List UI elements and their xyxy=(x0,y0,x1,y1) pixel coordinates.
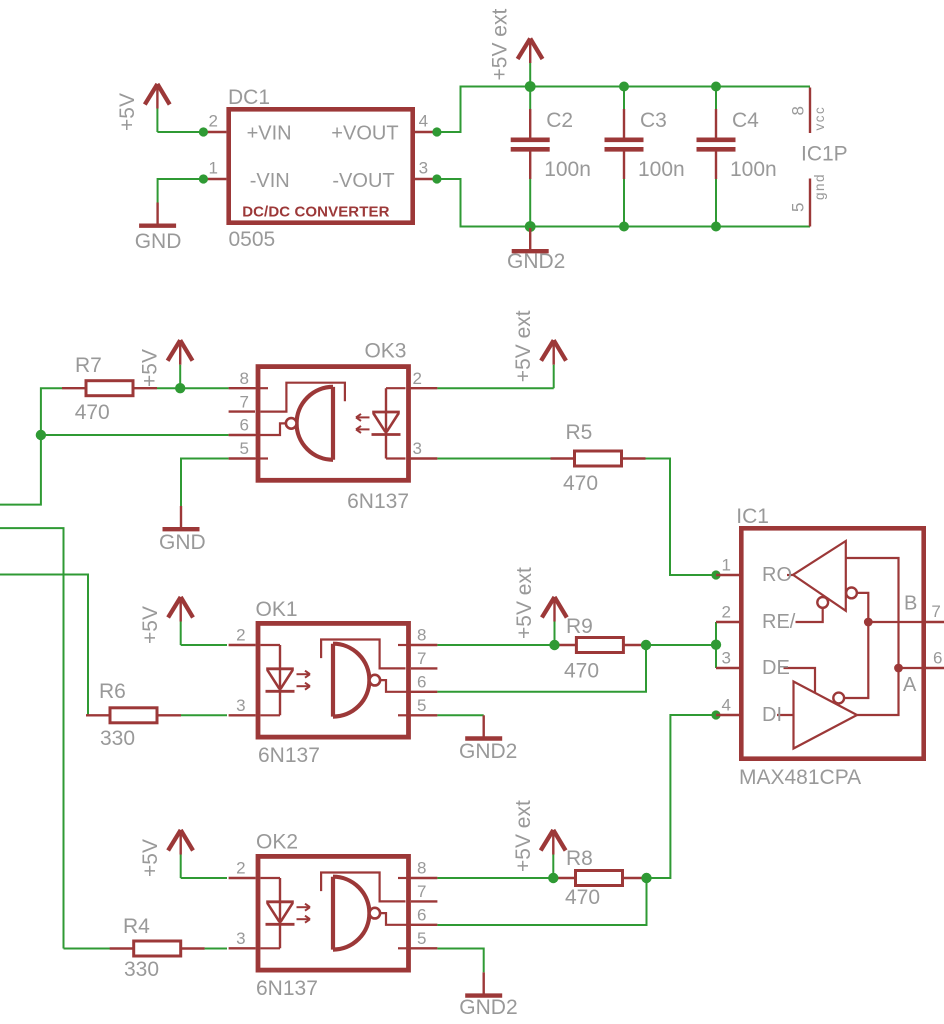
svg-text:8: 8 xyxy=(417,859,426,878)
IC1 pin stubs xyxy=(716,574,739,576)
wire R7 right to +5V and OK3 pin 8 xyxy=(157,387,229,389)
svg-text:6N137: 6N137 xyxy=(256,977,318,1000)
svg-text:470: 470 xyxy=(565,886,600,909)
ground GND xyxy=(135,203,182,254)
supply symbol +5V ext (top) xyxy=(518,39,543,87)
svg-text:R9: R9 xyxy=(566,615,593,638)
wire OK1 pin 5 to GND2 xyxy=(437,714,483,716)
wire OK3 pin 3 to R5 xyxy=(437,458,550,460)
svg-text:+5V: +5V xyxy=(139,349,162,387)
DC/DC converter DC1 xyxy=(203,86,437,251)
supply symbol +5V (OK2) xyxy=(168,830,193,878)
wire +5V to OK1 pin 2 xyxy=(181,644,227,646)
node R9 left junction xyxy=(549,640,559,650)
ground GND xyxy=(159,506,206,554)
wire OK3 pin 5 to GND xyxy=(181,459,229,507)
svg-text:-VIN: -VIN xyxy=(250,170,290,192)
OK2 LED xyxy=(261,877,281,879)
IC1P pin 8 VCC xyxy=(809,88,811,134)
node IC1 B junction xyxy=(864,618,873,627)
svg-text:5: 5 xyxy=(789,203,808,212)
svg-text:6N137: 6N137 xyxy=(258,744,320,767)
wire IC1 RE//DE junction xyxy=(715,622,717,668)
capacitor C2 100n xyxy=(511,87,591,227)
wire R4 to OK2 pin 3 xyxy=(205,948,227,950)
wire R5 to IC1 pin 1 RO xyxy=(646,459,717,576)
svg-text:+VOUT: +VOUT xyxy=(331,123,398,145)
IC1 receiver buffer xyxy=(793,541,846,611)
wire DC1 pin 1 to GND xyxy=(158,179,204,203)
svg-text:B: B xyxy=(904,593,917,615)
IC1P pin 5 GND xyxy=(809,179,811,227)
supply symbol +5V ext (OK2) xyxy=(541,830,566,878)
capacitor C4 100n xyxy=(697,87,777,227)
resistor R4 330 xyxy=(110,915,205,981)
svg-text:470: 470 xyxy=(563,472,598,495)
svg-text:DC1: DC1 xyxy=(228,86,270,109)
svg-text:vcc: vcc xyxy=(812,106,827,131)
svg-text:A: A xyxy=(903,674,917,696)
svg-text:-VOUT: -VOUT xyxy=(332,170,394,192)
supply symbol +5V ext (OK1) xyxy=(542,597,567,645)
ground GND2 xyxy=(507,228,565,273)
svg-text:2: 2 xyxy=(236,626,245,645)
supply symbol +5V ext (OK3) xyxy=(541,340,566,388)
OK1 gate xyxy=(331,644,335,717)
wire DC1 pin 3 to GND2 rail xyxy=(437,179,810,227)
svg-text:6N137: 6N137 xyxy=(347,490,409,513)
svg-text:C3: C3 xyxy=(640,109,667,132)
optocoupler OK3 6N137 xyxy=(229,367,438,481)
IC1 B net wiring xyxy=(844,593,868,698)
wire R9 right to IC1 RE//DE xyxy=(647,644,716,646)
resistor R5 470 xyxy=(551,421,646,495)
svg-text:+5V: +5V xyxy=(139,606,162,644)
svg-text:5: 5 xyxy=(417,929,426,948)
supply symbol +5V (OK3) xyxy=(168,340,193,388)
capacitor C3 100n xyxy=(605,87,685,227)
svg-text:+5V ext: +5V ext xyxy=(513,567,536,639)
wire OK2 pin 8 to +5V ext / R8 xyxy=(437,877,553,879)
svg-text:8: 8 xyxy=(789,106,808,115)
optocoupler OK1 6N137 xyxy=(229,623,438,737)
IC1 DE enable wire xyxy=(784,668,816,693)
junction dots top rail xyxy=(525,81,536,92)
svg-text:2: 2 xyxy=(413,369,422,388)
OK1 pin stubs xyxy=(411,644,437,646)
svg-text:DI: DI xyxy=(762,704,782,726)
wire R6 to OK1 pin 3 xyxy=(181,714,227,716)
svg-text:DC/DC CONVERTER: DC/DC CONVERTER xyxy=(242,204,389,221)
svg-text:470: 470 xyxy=(75,401,110,424)
svg-text:R8: R8 xyxy=(566,847,593,870)
svg-text:2: 2 xyxy=(722,603,731,622)
ground GND2 xyxy=(459,715,517,763)
OK3 LED xyxy=(386,387,406,389)
svg-text:100n: 100n xyxy=(638,158,685,181)
svg-text:GND: GND xyxy=(135,230,182,253)
svg-text:+5V: +5V xyxy=(116,93,139,131)
resistor R8 470 xyxy=(552,847,647,909)
wire to R4 xyxy=(64,948,111,950)
svg-text:RE/: RE/ xyxy=(762,611,796,633)
svg-text:C4: C4 xyxy=(732,109,759,132)
svg-text:2: 2 xyxy=(209,112,218,131)
svg-text:6: 6 xyxy=(240,416,249,435)
OK2 pin stubs xyxy=(411,877,437,879)
IC1 B-side inverting bubble (driver) xyxy=(833,693,844,704)
svg-text:+5V ext: +5V ext xyxy=(512,310,535,382)
wire R8 junction down to OK2 pin 6 xyxy=(437,878,646,925)
IC1 A net wiring xyxy=(899,667,927,669)
svg-text:RO: RO xyxy=(762,564,792,586)
svg-text:4: 4 xyxy=(419,112,428,131)
svg-text:DE: DE xyxy=(762,657,790,679)
svg-text:6: 6 xyxy=(417,906,426,925)
svg-text:1: 1 xyxy=(209,159,218,178)
IC1 receiver input wire to A net xyxy=(846,558,899,715)
svg-text:GND2: GND2 xyxy=(459,740,517,763)
svg-text:6: 6 xyxy=(417,673,426,692)
node R8 left junction xyxy=(548,873,558,883)
wire R9 junction down to OK1 pin 6 xyxy=(437,645,646,692)
node R8 right junction xyxy=(641,873,651,883)
node +5V/R7/OK3.8 xyxy=(175,383,185,393)
svg-text:5: 5 xyxy=(417,696,426,715)
supply symbol +5V (OK1) xyxy=(168,597,193,645)
IC1 B-side inverting bubble (receiver) xyxy=(846,588,857,599)
wire +5V to OK2 pin 2 xyxy=(181,877,227,879)
svg-text:100n: 100n xyxy=(730,158,777,181)
svg-text:8: 8 xyxy=(417,626,426,645)
svg-text:IC1P: IC1P xyxy=(801,143,848,166)
IC1 driver buffer xyxy=(794,682,858,749)
svg-text:3: 3 xyxy=(236,696,245,715)
IC1 RE/ enable bubble xyxy=(796,608,823,622)
svg-text:8: 8 xyxy=(240,369,249,388)
wire +5V to DC1 pin 2 xyxy=(157,131,203,133)
svg-text:R6: R6 xyxy=(99,680,126,703)
svg-text:330: 330 xyxy=(100,727,135,750)
node IC1 pin 1 xyxy=(711,570,720,579)
svg-text:7: 7 xyxy=(417,649,426,668)
node IC1 pin 4 xyxy=(711,710,720,719)
svg-text:R4: R4 xyxy=(123,915,150,938)
svg-text:OK2: OK2 xyxy=(256,831,298,854)
svg-text:MAX481CPA: MAX481CPA xyxy=(739,766,861,789)
svg-text:OK1: OK1 xyxy=(256,598,298,621)
optocoupler OK2 6N137 xyxy=(229,856,438,970)
svg-text:+5V ext: +5V ext xyxy=(489,9,512,81)
svg-text:3: 3 xyxy=(722,649,731,668)
svg-text:330: 330 xyxy=(124,958,159,981)
OK1 LED xyxy=(261,644,281,646)
ground GND2 xyxy=(459,972,517,1019)
svg-text:1: 1 xyxy=(722,556,731,575)
wire OK3 pin 2 to +5V ext xyxy=(437,387,553,389)
junction dots bottom rail xyxy=(525,221,536,232)
resistor R7 470 xyxy=(62,354,157,424)
wire OK2 pin 5 to GND2 xyxy=(437,949,483,973)
power pins symbol IC1P xyxy=(789,88,848,227)
node IC1 A junction xyxy=(894,664,903,673)
svg-text:R5: R5 xyxy=(566,421,593,444)
svg-text:GND2: GND2 xyxy=(507,250,565,273)
svg-text:3: 3 xyxy=(413,439,422,458)
junction dots at DC1 pins xyxy=(199,127,208,136)
svg-text:IC1: IC1 xyxy=(736,505,769,528)
OK2 gate xyxy=(331,877,335,950)
resistor R6 330 xyxy=(86,680,181,750)
resistor R9 470 xyxy=(552,615,647,683)
svg-text:2: 2 xyxy=(236,859,245,878)
RS-485 transceiver IC1 MAX481CPA xyxy=(716,505,944,789)
svg-text:R7: R7 xyxy=(75,354,102,377)
svg-text:3: 3 xyxy=(419,159,428,178)
svg-text:100n: 100n xyxy=(544,158,591,181)
node junction R7/OK3.6 xyxy=(36,430,46,440)
supply symbol +5V (DC1 input) xyxy=(145,84,170,132)
svg-text:7: 7 xyxy=(417,882,426,901)
svg-text:GND2: GND2 xyxy=(459,996,517,1019)
svg-text:7: 7 xyxy=(240,392,249,411)
wire OK1 pin 8 to +5V ext / R9 xyxy=(437,644,554,646)
svg-text:OK3: OK3 xyxy=(364,340,406,363)
svg-text:3: 3 xyxy=(236,929,245,948)
svg-text:5: 5 xyxy=(240,439,249,458)
svg-text:gnd: gnd xyxy=(812,173,827,200)
svg-text:470: 470 xyxy=(564,660,599,683)
wire R7 left to junction and off-sheet (RXD) xyxy=(0,388,62,504)
OK3 gate xyxy=(331,387,335,460)
svg-text:+5V ext: +5V ext xyxy=(512,800,535,872)
wire DC1 pin 4 to +5V ext rail xyxy=(437,87,810,133)
wire R8 right up to IC1 pin 4 DI xyxy=(647,715,717,878)
svg-text:GND: GND xyxy=(159,531,206,554)
svg-text:+5V: +5V xyxy=(139,839,162,877)
OK3 pin stubs xyxy=(229,387,255,389)
svg-text:+VIN: +VIN xyxy=(247,123,292,145)
svg-text:0505: 0505 xyxy=(229,228,276,251)
svg-text:7: 7 xyxy=(931,602,940,621)
off-sheet wire (to R6) xyxy=(0,575,88,716)
off-sheet wire (TXD in) xyxy=(0,528,64,948)
svg-text:C2: C2 xyxy=(546,109,573,132)
svg-text:4: 4 xyxy=(722,696,731,715)
node R9 right junction xyxy=(641,640,651,650)
wire junction to OK3 pin 6 xyxy=(41,434,229,436)
svg-text:6: 6 xyxy=(933,649,942,668)
node IC1 pins 2-3 junction xyxy=(711,640,721,650)
